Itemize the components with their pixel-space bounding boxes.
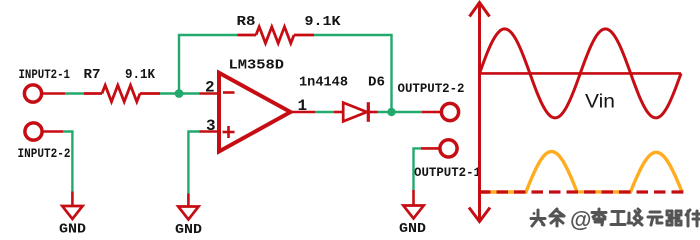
terminal OUTPUT2-1 (440, 140, 457, 157)
svg-text:INPUT2-1: INPUT2-1 (19, 67, 71, 82)
axis arrow bottom (469, 208, 490, 222)
wire feedback up (179, 35, 238, 94)
terminal OUTPUT2-2 lead (422, 111, 442, 114)
svg-text:D6: D6 (368, 75, 385, 91)
axis arrow top (470, 3, 490, 17)
op-amp pin 1 output stub (291, 111, 316, 114)
watermark 头条@李工谈元器件 (531, 210, 545, 226)
wire feedback right down (314, 35, 392, 108)
svg-text:R7: R7 (84, 67, 101, 83)
resistor R8 (238, 27, 315, 43)
ground GND3 (412, 190, 415, 206)
waveform axis vertical (478, 4, 481, 220)
svg-text:Vin: Vin (585, 92, 615, 113)
node B junction (387, 108, 395, 116)
rectified output waveform (orange) (482, 152, 685, 193)
wire input2-1 to R7 (42, 92, 66, 95)
svg-text:OUTPUT2-1: OUTPUT2-1 (414, 165, 481, 180)
op-amp pin 3 stub (200, 130, 220, 133)
resistor R7 (84, 85, 160, 101)
node A junction (175, 89, 184, 98)
wire diode to output (378, 111, 423, 113)
svg-text:9.1K: 9.1K (305, 14, 342, 30)
svg-text:1: 1 (298, 97, 308, 115)
terminal OUTPUT2-2 (441, 103, 458, 120)
svg-text:@: @ (570, 207, 591, 232)
wire OUTPUT2-1 to gnd (421, 147, 440, 150)
wire R7 to node A (160, 92, 200, 94)
diode D6 (334, 102, 378, 122)
terminal INPUT2-1 (24, 85, 41, 102)
op-amp plus sign (223, 126, 235, 138)
svg-text:9.1K: 9.1K (125, 67, 156, 83)
op-amp minus sign (223, 91, 235, 94)
svg-text:GND: GND (59, 222, 86, 235)
svg-text:R8: R8 (237, 14, 256, 30)
svg-text:INPUT2-2: INPUT2-2 (18, 146, 71, 161)
svg-text:1n4148: 1n4148 (299, 75, 348, 91)
wire pin3 to gnd (188, 132, 199, 194)
svg-text:LM358D: LM358D (229, 58, 285, 74)
svg-text:OUTPUT2-2: OUTPUT2-2 (398, 81, 465, 96)
wire INPUT2-2 to gnd (42, 130, 63, 133)
waveform zero line (480, 72, 682, 75)
ground GND2 (187, 194, 190, 207)
op-amp U1 LM358D (219, 73, 291, 152)
terminal INPUT2-2 (25, 123, 42, 140)
svg-text:GND: GND (399, 221, 426, 234)
ground GND1 (71, 192, 74, 207)
op-amp pin 2 stub (200, 92, 220, 95)
wire opamp to diode (315, 111, 334, 113)
rectified baseline stub at axis (479, 190, 488, 193)
rectified baseline red dashes (479, 190, 686, 193)
svg-text:GND: GND (175, 222, 202, 234)
svg-text:2: 2 (205, 79, 215, 97)
sine wave Vin (480, 29, 682, 118)
svg-text:3: 3 (206, 117, 216, 135)
